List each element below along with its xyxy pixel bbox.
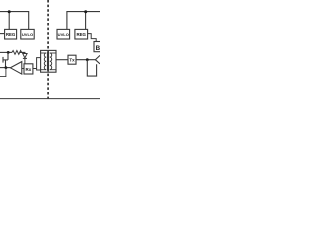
isolation barrier dashed line xyxy=(47,0,49,99)
wire Rx to transformer xyxy=(33,68,37,70)
resistor R1 xyxy=(12,51,22,55)
op-amp A1 xyxy=(10,62,21,75)
wire feedback loop xyxy=(87,60,96,76)
transistor Q1 xyxy=(3,52,8,67)
node rail junction right xyxy=(84,10,87,13)
node feedback junction xyxy=(86,58,89,61)
regulator REG2 xyxy=(75,29,88,39)
wire REG2 to FB box xyxy=(88,34,97,42)
wire VDD1 top rail xyxy=(0,12,29,30)
wire transformer to Tx xyxy=(56,59,68,61)
node rail junction left xyxy=(8,10,11,13)
wire amp output net xyxy=(0,67,10,69)
wire ground return left xyxy=(0,68,6,77)
regulator REG1 xyxy=(5,29,17,39)
transformer T1 xyxy=(41,50,56,72)
wire Rx to amp xyxy=(22,68,24,70)
op-amp U2 xyxy=(95,55,100,64)
wire transformer primary left xyxy=(37,58,41,70)
svg-text:REG: REG xyxy=(76,32,86,37)
comparator UVLO1 xyxy=(21,29,34,39)
wire rail drop to REG1 xyxy=(8,12,10,30)
wire VIN net left xyxy=(0,51,12,53)
diode D1 xyxy=(23,54,27,59)
comparator UVLO2 xyxy=(57,29,70,39)
svg-text:UVLO: UVLO xyxy=(58,32,69,37)
wire VDD2 top rail xyxy=(67,12,100,30)
node VIN junction xyxy=(7,51,10,54)
svg-text:REG: REG xyxy=(6,32,16,37)
node gate junction xyxy=(5,66,8,69)
wire REG1 left stub xyxy=(0,33,5,35)
svg-text:B: B xyxy=(96,45,100,52)
bottom frame rule xyxy=(0,98,100,100)
wire diode to Rx xyxy=(24,58,26,63)
wire Tx to error amp xyxy=(76,59,95,61)
svg-text:Rx: Rx xyxy=(26,67,32,72)
receiver Rx xyxy=(24,64,33,74)
transmitter Tx xyxy=(68,55,76,64)
svg-text:UVLO: UVLO xyxy=(22,32,33,37)
svg-text:Tx: Tx xyxy=(69,58,75,63)
wire resistor to diode xyxy=(20,52,25,53)
node FB pin box xyxy=(94,42,102,53)
wire rail drop to REG2 xyxy=(85,12,87,30)
